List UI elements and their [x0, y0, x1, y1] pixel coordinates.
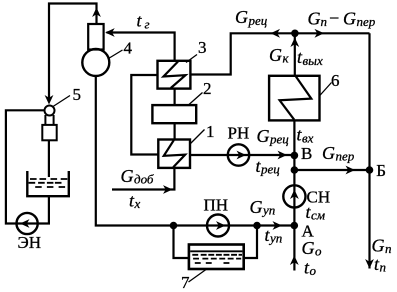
pump RN — [228, 144, 249, 165]
svg-text:G: G — [372, 236, 385, 256]
svg-text:п: п — [380, 260, 387, 275]
svg-text:3: 3 — [198, 38, 207, 57]
arrow: EN pump flow left — [20, 219, 30, 228]
svg-text:о: о — [315, 244, 322, 259]
svg-text:п: п — [321, 14, 328, 29]
svg-text:G: G — [302, 238, 315, 258]
node A — [291, 222, 299, 230]
svg-text:ПН: ПН — [204, 196, 229, 215]
pointer line for label 2 — [189, 93, 203, 105]
boiler 2 — [152, 105, 196, 123]
svg-text:см: см — [311, 208, 325, 223]
wire: bypass left pipe to tank 7 — [174, 226, 189, 259]
arrow: G_up toward node A — [273, 221, 283, 230]
heater 3 — [158, 61, 191, 89]
svg-text:рец: рец — [269, 132, 289, 147]
svg-text:вых: вых — [303, 53, 323, 68]
node: bypass right — [253, 222, 261, 230]
svg-text:уп: уп — [268, 231, 282, 246]
heat exchanger 6 — [269, 76, 319, 121]
svg-text:1: 1 — [206, 122, 215, 141]
makeup tank — [27, 171, 69, 196]
makeup tank water — [29, 179, 68, 187]
wire: heat exchanger 6 top up to top junction — [294, 33, 296, 76]
arrow: G_p down at right line bottom — [365, 259, 374, 269]
arrow: G_dob inlet right — [163, 185, 173, 194]
svg-text:G: G — [235, 7, 248, 27]
svg-text:G: G — [121, 166, 134, 186]
svg-text:В: В — [301, 144, 312, 163]
pump SN — [283, 185, 305, 207]
arrow: RN discharge into node B — [278, 151, 288, 160]
level regulator 5 — [42, 106, 56, 141]
svg-text:G: G — [343, 9, 356, 29]
arrow: toward node B right (G_per) — [346, 166, 356, 175]
wire: t_g steam line into column 4 — [107, 33, 175, 61]
tank 7 water — [190, 251, 242, 263]
svg-text:ЭН: ЭН — [18, 233, 42, 252]
svg-text:2: 2 — [203, 79, 212, 98]
pointer line for label 4 — [109, 50, 123, 59]
wire: makeup tank bottom to EN pump line — [6, 110, 49, 223]
svg-text:п: п — [385, 241, 392, 256]
pump EN — [17, 213, 38, 234]
arrow: G_rec left at top junction — [271, 29, 281, 38]
arrow: vapor up at column 4 outlet — [92, 8, 101, 18]
wire: bypass from heater 3 left down to heater 1 left — [131, 75, 158, 155]
node: top junction — [291, 30, 299, 38]
arrow: RN pump flow right — [237, 151, 247, 160]
pointer line for label 1 — [190, 130, 205, 145]
heater 1 — [158, 140, 190, 168]
wire: right main line down from top junction through node B to bottom — [368, 33, 370, 268]
wire: heater 3 to boiler 2 — [174, 89, 176, 106]
svg-text:уп: уп — [261, 203, 275, 218]
deaerator column 4 — [88, 24, 103, 50]
svg-text:G: G — [269, 45, 282, 65]
wire: bypass right pipe to tank 7 — [244, 226, 257, 259]
svg-text:РН: РН — [228, 124, 250, 143]
svg-text:о: о — [310, 263, 317, 278]
node B — [291, 152, 299, 160]
svg-text:−: − — [328, 8, 340, 28]
svg-text:рец: рец — [260, 162, 280, 177]
wire: heater 1 bottom with G_dob inlet — [112, 168, 174, 190]
svg-text:4: 4 — [124, 39, 133, 58]
wire: heater 3 right up to top junction and left arrow line — [190, 33, 369, 74]
svg-text:G: G — [250, 197, 263, 217]
wire: heater 1 right through RN pump to node B — [190, 154, 294, 156]
arrow: G_k up into top junction — [290, 38, 299, 48]
arrow: down into regulator 5 — [45, 95, 54, 105]
deaerator tank 4 — [82, 49, 109, 76]
svg-text:5: 5 — [73, 85, 82, 104]
wire: vapor loop from column 4 top over to regulator 5 — [49, 4, 97, 102]
pump PN — [207, 215, 229, 237]
svg-text:пер: пер — [336, 149, 355, 164]
node below B — [291, 166, 299, 174]
svg-text:6: 6 — [331, 71, 340, 90]
pointer line for label 7 — [189, 270, 207, 283]
svg-text:7: 7 — [181, 273, 190, 292]
svg-text:А: А — [302, 222, 315, 241]
node: bypass left — [170, 222, 178, 230]
arrow: SN pump flow up — [290, 190, 299, 200]
pointer line for label 3 — [186, 55, 197, 63]
wire: makeup line from regulator 5 into makeup tank — [48, 140, 50, 177]
svg-text:Б: Б — [376, 161, 386, 180]
wire: vertical node line B to A through SN pump and G_o below — [293, 120, 295, 270]
svg-text:г: г — [145, 17, 150, 32]
tank 7 — [189, 245, 244, 270]
wire: heater 3 top connection — [174, 33, 176, 61]
svg-text:G: G — [322, 143, 335, 163]
arrow: G_p-G_per right at top junction — [315, 29, 325, 38]
svg-text:к: к — [283, 51, 290, 66]
wire: main condensate line from deaerator down and right to node A — [96, 76, 294, 226]
svg-text:пер: пер — [357, 14, 376, 29]
svg-text:G: G — [257, 126, 270, 146]
arrow: G_o up into node A — [290, 256, 299, 266]
svg-text:рец: рец — [248, 13, 268, 28]
wire: boiler 2 to heater 1 — [174, 123, 176, 139]
svg-text:х: х — [134, 196, 141, 211]
node Б — [366, 166, 374, 174]
pointer line for label 6 — [320, 83, 332, 96]
pointer line for label 5 — [53, 96, 70, 107]
svg-text:доб: доб — [134, 172, 154, 187]
svg-text:СН: СН — [307, 188, 331, 207]
wire: node to node B horizontal — [294, 169, 369, 171]
arrow: t_g into column 4 — [105, 28, 115, 37]
svg-text:G: G — [308, 9, 321, 29]
arrow: PN pump flow right — [216, 221, 226, 230]
